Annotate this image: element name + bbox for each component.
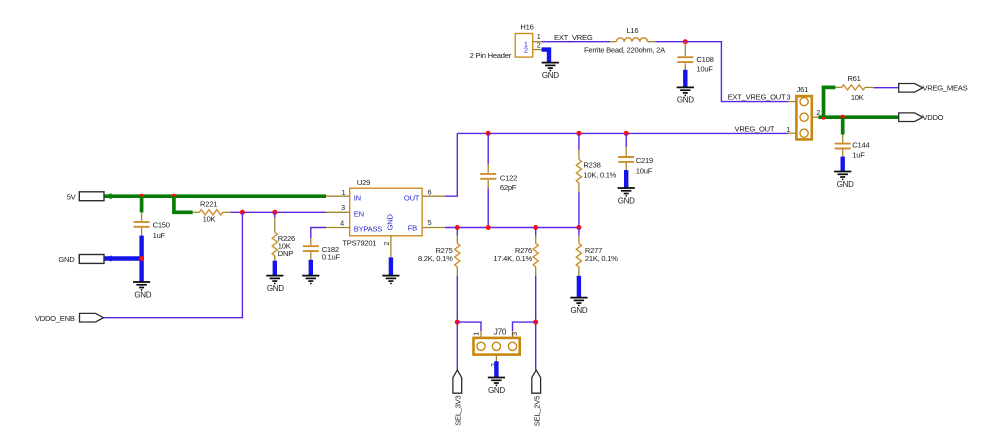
svg-text:GND: GND	[837, 180, 854, 189]
wire branch down to C150 (thick green)	[140, 196, 144, 212]
svg-text:GND: GND	[677, 96, 694, 105]
svg-text:2: 2	[524, 46, 528, 55]
wire R61 to VREG_MEAS port	[873, 87, 898, 89]
ground symbol below R277	[570, 298, 587, 304]
J61 pin 1 stub	[788, 132, 796, 134]
svg-text:1: 1	[786, 125, 790, 134]
resistor R61	[835, 85, 873, 90]
wire branch to J70 pin 1	[457, 322, 481, 331]
junction at C150 branch	[139, 194, 144, 199]
svg-text:C219: C219	[636, 156, 653, 165]
U29 pin 4 stub	[326, 227, 350, 229]
wire net VREG_OUT rail to J61 pin1	[457, 132, 788, 134]
svg-text:U29: U29	[357, 178, 370, 187]
capacitor C182	[303, 238, 319, 260]
svg-text:3: 3	[510, 332, 519, 336]
svg-text:J70: J70	[494, 328, 507, 337]
ground symbol below C108	[677, 87, 694, 93]
svg-text:BYPASS: BYPASS	[354, 224, 383, 233]
svg-text:EXT_VREG_OUT: EXT_VREG_OUT	[728, 93, 786, 102]
wire J70 pin2 to ground (thick blue)	[494, 361, 498, 377]
wire rail down to R238	[578, 133, 580, 150]
wire C144 to ground (thick blue)	[841, 157, 845, 172]
svg-text:17.4K, 0.1%: 17.4K, 0.1%	[493, 254, 532, 263]
wire branch down to C144 (thick green)	[841, 117, 845, 134]
svg-text:10uF: 10uF	[636, 166, 653, 175]
J70 pin 1 stub	[480, 331, 482, 338]
wire rail down to C219	[625, 133, 627, 147]
svg-text:C108: C108	[696, 55, 713, 64]
svg-text:GND: GND	[386, 214, 395, 231]
H16 pin 1 stub	[533, 41, 542, 43]
svg-text:10K: 10K	[203, 215, 216, 224]
junction at GND port wire	[139, 256, 144, 261]
arrowhead into GND port	[104, 255, 112, 261]
svg-text:H16: H16	[520, 23, 533, 32]
ground symbol below C144	[834, 172, 851, 178]
resistor R276	[533, 236, 538, 276]
svg-text:3: 3	[787, 93, 791, 102]
svg-text:L16: L16	[626, 26, 638, 35]
resistor R238	[576, 150, 581, 192]
U29 pin 1 stub	[326, 195, 350, 197]
svg-text:4: 4	[340, 218, 344, 227]
wire GND port to C150 column (thick blue)	[105, 256, 142, 260]
svg-text:2: 2	[537, 41, 541, 50]
port SEL_2V5	[532, 370, 541, 393]
svg-text:10K: 10K	[851, 93, 864, 102]
wire R275 down to SEL_3V3	[456, 276, 458, 370]
port 5V input	[79, 192, 104, 201]
wire U29 BYPASS to C182	[311, 228, 326, 239]
J61 pin 2 stub	[812, 116, 819, 118]
svg-text:GND: GND	[488, 386, 505, 395]
wire J61 pin2 to VDDO port (thick green)	[819, 115, 901, 119]
junction at R61 branch	[821, 115, 826, 120]
wire C108 to ground (thick blue)	[683, 70, 687, 87]
svg-text:1uF: 1uF	[153, 231, 166, 240]
resistor R277	[576, 236, 581, 276]
ground symbol below H16	[542, 63, 559, 69]
resistor R275	[455, 236, 460, 276]
svg-text:VDDO_ENB: VDDO_ENB	[35, 314, 75, 323]
junction FB at R276	[533, 225, 538, 230]
junction FB at R275	[455, 225, 460, 230]
svg-text:GND: GND	[58, 255, 75, 264]
svg-text:GND: GND	[542, 71, 559, 80]
H16 pin 2 stub	[533, 49, 542, 51]
arrowhead into 5V port	[104, 193, 112, 199]
svg-text:21K, 0.1%: 21K, 0.1%	[585, 254, 618, 263]
svg-text:EXT_VREG: EXT_VREG	[554, 33, 593, 42]
wire H16 pin2 to ground (thick blue)	[542, 50, 549, 63]
junction FB at C122	[486, 225, 491, 230]
wire U29 GND pin to ground (thick blue)	[389, 257, 393, 275]
svg-text:0.1uF: 0.1uF	[322, 252, 341, 261]
wire FB down to R276	[535, 228, 537, 236]
wire VDDO_ENB to EN junction	[104, 212, 243, 317]
svg-text:62pF: 62pF	[500, 183, 517, 192]
svg-text:EN: EN	[354, 210, 364, 219]
svg-text:2 Pin Header: 2 Pin Header	[470, 51, 512, 60]
svg-text:R221: R221	[200, 199, 217, 208]
wire branch to J70 pin 3	[513, 322, 536, 331]
svg-text:10uF: 10uF	[696, 64, 713, 73]
wire net EXT_VREG from H16 pin1 to L16	[542, 41, 610, 43]
wire branch down to R221 (thick green)	[174, 196, 193, 212]
svg-text:IN: IN	[354, 194, 361, 203]
svg-text:8.2K, 0.1%: 8.2K, 0.1%	[418, 254, 453, 263]
connector J61 3-pin jumper	[796, 96, 811, 139]
wire R238 down to FB rail	[578, 192, 580, 227]
port VDDO	[899, 113, 923, 122]
capacitor C150	[134, 212, 150, 235]
svg-text:GND: GND	[570, 306, 587, 315]
ground symbol below C219	[618, 188, 635, 194]
wire R276 down to SEL_2V5	[535, 276, 537, 370]
junction at J70 pin1 branch	[455, 320, 460, 325]
wire R277 to ground (thick blue)	[577, 276, 581, 298]
junction at R221 branch	[171, 194, 176, 199]
inductor L16 ferrite bead	[610, 38, 656, 42]
capacitor C108	[677, 42, 693, 70]
J70 pin 2 stub	[495, 355, 497, 362]
U29 pin 2 GND stub down	[390, 236, 392, 258]
port VDDO_ENB	[80, 313, 104, 322]
wire FB down to R275	[456, 228, 458, 236]
wire C182 to ground (thick blue)	[309, 260, 313, 275]
op-amp U29 TPS79201 regulator body	[350, 188, 422, 236]
wire branch up to R61 (thick green)	[824, 87, 836, 117]
U29 pin 3 stub	[326, 211, 350, 213]
U29 pin 5 stub	[422, 227, 445, 229]
port VREG_MEAS	[899, 84, 923, 93]
ground symbol below C150	[133, 282, 150, 288]
svg-text:C122: C122	[500, 173, 517, 182]
svg-text:1uF: 1uF	[852, 151, 865, 160]
svg-text:6: 6	[428, 188, 432, 197]
J61 pin 3 stub	[788, 101, 796, 103]
wire junction to corner right	[685, 42, 788, 102]
ground symbol below R226	[266, 276, 283, 282]
svg-text:TPS79201: TPS79201	[342, 238, 376, 247]
svg-text:5: 5	[428, 218, 432, 227]
port GND input	[79, 255, 104, 264]
connector H16 2-pin header	[515, 34, 533, 58]
junction at C219 top	[624, 131, 629, 136]
svg-text:10K, 0.1%: 10K, 0.1%	[583, 170, 616, 179]
junction FB at R238/R277	[576, 225, 581, 230]
capacitor C122	[480, 164, 496, 188]
ground symbol below U29	[382, 276, 399, 282]
wire C150 to ground (thick blue)	[139, 236, 143, 282]
wire U29 OUT up to VREG_OUT rail	[445, 133, 457, 196]
port SEL_3V3	[453, 370, 462, 393]
svg-text:1: 1	[342, 188, 346, 197]
wire C219 to ground (thick blue)	[624, 170, 628, 188]
ground symbol below C182	[302, 276, 319, 282]
wire EN junction down to R226	[274, 212, 276, 217]
svg-text:GND: GND	[267, 284, 284, 293]
svg-text:2: 2	[382, 242, 391, 246]
svg-text:OUT: OUT	[404, 193, 420, 202]
svg-text:1: 1	[472, 332, 481, 336]
svg-text:SEL_3V3: SEL_3V3	[454, 395, 463, 425]
svg-text:J61: J61	[797, 85, 809, 94]
svg-text:SEL_2V5: SEL_2V5	[533, 396, 542, 426]
junction at R226 branch	[272, 210, 277, 215]
ground symbol below J70	[488, 378, 505, 384]
svg-text:R238: R238	[583, 161, 600, 170]
svg-text:VREG_MEAS: VREG_MEAS	[922, 83, 967, 92]
svg-text:VDDO: VDDO	[922, 113, 943, 122]
wire R221 to U29 EN	[230, 211, 326, 213]
wire 5V rail to U29 IN (thick green)	[105, 194, 327, 198]
junction at VDDO_ENB branch	[240, 210, 245, 215]
svg-text:GND: GND	[134, 290, 151, 299]
junction at C108	[683, 39, 688, 44]
junction at C144 branch	[840, 115, 845, 120]
junction at J70 pin3 branch	[533, 320, 538, 325]
wire net FB rail	[445, 227, 579, 229]
svg-text:VREG_OUT: VREG_OUT	[735, 124, 775, 133]
capacitor C219	[618, 147, 634, 171]
svg-text:3: 3	[341, 203, 345, 212]
resistor R226	[272, 218, 277, 261]
wire rail down to C122	[487, 133, 489, 164]
wire C122 down to FB rail	[487, 188, 489, 227]
svg-text:R61: R61	[847, 74, 860, 83]
J70 pin 3 stub	[512, 331, 514, 338]
svg-text:C150: C150	[153, 221, 170, 230]
resistor R221	[193, 210, 231, 215]
connector J70 3-pin jumper	[474, 338, 520, 355]
capacitor C144	[835, 135, 851, 158]
svg-text:Ferrite Bead, 220ohm, 2A: Ferrite Bead, 220ohm, 2A	[584, 45, 666, 54]
wire FB down to R277	[578, 228, 580, 236]
junction at C122 top	[486, 131, 491, 136]
svg-text:FB: FB	[408, 224, 417, 233]
svg-text:DNP: DNP	[278, 249, 293, 258]
junction at R238 top	[576, 131, 581, 136]
wire L16 to C108 junction	[656, 41, 686, 43]
wire R226 to ground (thick blue)	[273, 261, 277, 276]
U29 pin 6 stub	[422, 195, 445, 197]
svg-text:GND: GND	[618, 196, 635, 205]
svg-text:C144: C144	[852, 141, 869, 150]
svg-text:5V: 5V	[67, 192, 77, 201]
